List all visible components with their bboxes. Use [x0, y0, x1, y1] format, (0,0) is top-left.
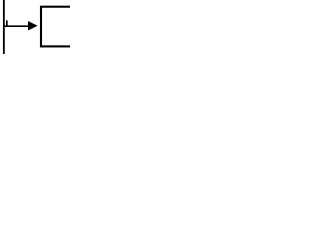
arrowhead pointing right into box	[28, 21, 38, 31]
box: process block (clipped at right edge)	[41, 7, 81, 47]
node: junction stub on connector near bus	[6, 20, 8, 27]
wire: horizontal connector from bus toward box	[3, 25, 30, 27]
wire: vertical bus line at left	[3, 0, 5, 54]
